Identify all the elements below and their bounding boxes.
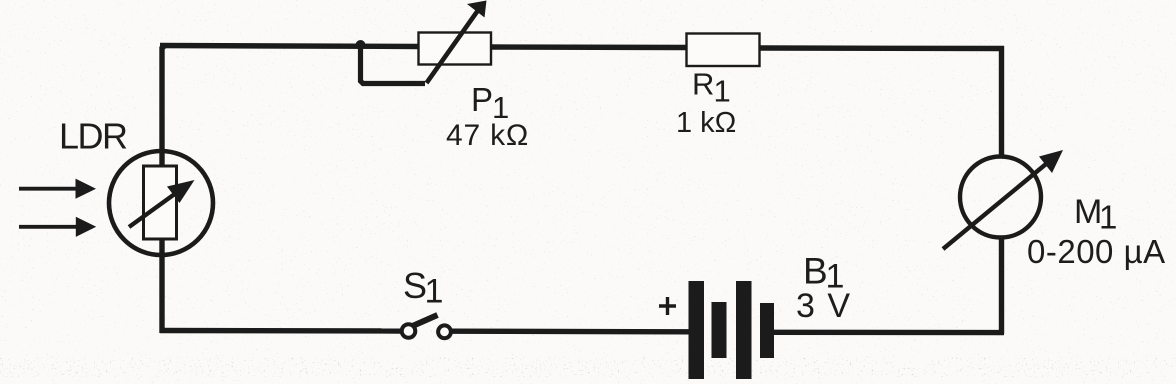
- svg-text:3 V: 3 V: [796, 287, 852, 325]
- LDR inner resistor rectangle: [144, 166, 177, 239]
- svg-text:1: 1: [714, 74, 731, 109]
- svg-text:0-200 µA: 0-200 µA: [1027, 233, 1166, 270]
- svg-text:S: S: [403, 265, 427, 306]
- battery B1 plate 3 (tall): [736, 281, 752, 379]
- wire bottom rail right segment (battery to right corner): [774, 330, 1004, 336]
- battery B1 plate 2 (short): [712, 302, 727, 358]
- svg-text:P: P: [471, 81, 493, 118]
- wire top rail right segment (R1 to right corner): [759, 45, 1004, 51]
- resistor R1 body: [687, 34, 760, 67]
- svg-text:LDR: LDR: [59, 116, 127, 157]
- light arrow upper: [19, 179, 96, 199]
- wire top-left vertical (LDR top to top rail): [162, 46, 165, 168]
- node junction dot at P1 wiper tap: [356, 40, 366, 50]
- svg-text:B: B: [803, 251, 828, 292]
- potentiometer P1 wiper tail wire: [361, 46, 426, 84]
- wire bottom-left vertical (LDR bottom to bottom rail): [159, 238, 164, 333]
- wire bottom rail left segment (left corner to S1): [160, 328, 401, 334]
- meter M1 needle arrow: [943, 150, 1063, 249]
- wire top rail middle segment (P1 to R1): [490, 44, 687, 50]
- wire top rail left segment (corner to P1): [160, 46, 419, 47]
- svg-text:R: R: [692, 67, 714, 102]
- potentiometer P1 body: [419, 33, 492, 65]
- potentiometer P1 wiper arrow: [427, 1, 487, 84]
- svg-text:1: 1: [1099, 199, 1117, 236]
- wire right vertical below meter: [999, 238, 1004, 334]
- battery B1 plate 1 (tall): [689, 281, 705, 379]
- switch S1 left contact circle: [402, 324, 416, 338]
- svg-text:1: 1: [425, 273, 444, 311]
- svg-text:47 kΩ: 47 kΩ: [446, 119, 529, 152]
- wire bottom rail middle segment (S1 to battery): [451, 329, 689, 335]
- switch S1 lever: [413, 315, 438, 326]
- LDR diagonal arrow: [129, 180, 195, 227]
- meter M1 body circle: [960, 157, 1041, 238]
- bottom page-edge speckle band: [0, 357, 1176, 377]
- light arrow lower: [19, 217, 96, 237]
- battery B1 plate 4 (short): [760, 303, 774, 358]
- switch S1 right contact circle: [438, 325, 451, 338]
- svg-text:1 kΩ: 1 kΩ: [676, 107, 736, 139]
- LDR photoresistor body circle: [109, 151, 213, 255]
- wire top-right vertical (corner down to meter M1): [999, 46, 1004, 156]
- battery polarity plus sign: [659, 297, 676, 315]
